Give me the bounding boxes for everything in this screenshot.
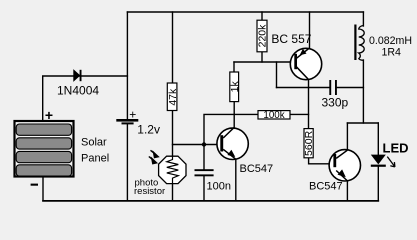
- svg-text:BC547: BC547: [240, 163, 274, 175]
- wire 100k right lead: [290, 113, 309, 115]
- resistor 560R: [303, 129, 315, 158]
- wire inductor bottom lead: [362, 60, 364, 123]
- wire 100n capacitor bottom lead: [203, 176, 205, 200]
- wire 100n capacitor top lead: [203, 145, 205, 170]
- label solar panel minus: [31, 184, 38, 186]
- capacitor 100n: [195, 169, 214, 176]
- wire 220k bottom to Q2 base rail: [261, 52, 263, 62]
- wire Q2 collector down to 560R: [308, 80, 310, 129]
- capacitor 330p: [329, 80, 337, 95]
- resistor 100k: [258, 110, 290, 121]
- wire 47k top: [172, 12, 174, 83]
- wire 330p left lead: [277, 87, 330, 89]
- diode D1 1N4004: [74, 70, 82, 81]
- wire photoresistor bottom: [172, 183, 174, 201]
- battery B1 1.2v: [116, 119, 138, 124]
- svg-text:1.2v: 1.2v: [137, 122, 160, 136]
- LED D2: [371, 155, 395, 167]
- wire left rail lower (battery to bottom rail): [126, 124, 128, 200]
- wire Q3 emitter to bottom rail: [346, 181, 348, 201]
- node junction dot at Q1 base: [202, 142, 206, 146]
- wire panel minus to bottom rail: [42, 178, 44, 201]
- wire 330p right lead: [337, 87, 364, 89]
- svg-text:330p: 330p: [322, 96, 349, 110]
- svg-text:BC 557: BC 557: [271, 32, 311, 46]
- wire Q2 base rail: [234, 61, 294, 63]
- wire 1k bottom to Q1 collector: [233, 102, 235, 127]
- solar panel: [15, 121, 74, 177]
- wire output node rail: [347, 122, 378, 124]
- inductor L1 0.082mH 1R4: [354, 25, 364, 61]
- photoresistor light arrows: [149, 150, 159, 163]
- transistor Q3 BC547: [329, 150, 360, 181]
- wire 100k left lead down to Q1 base node: [204, 114, 258, 144]
- wire 560R bottom to Q3 base: [309, 158, 334, 164]
- wire Q1 base rail: [173, 144, 222, 146]
- transistor Q2 BC557: [290, 48, 321, 79]
- wire left rail upper (top rail to battery): [126, 12, 128, 119]
- wire Q3 collector: [346, 123, 348, 150]
- wire inductor top lead: [362, 12, 364, 26]
- wire 47k bottom to photoresistor: [172, 111, 174, 157]
- wire bottom rail: [43, 200, 378, 202]
- wire Q1 emitter to bottom rail: [235, 159, 237, 201]
- wire LED anode lead: [377, 123, 379, 155]
- resistor 1k: [229, 72, 241, 102]
- wire 220k top: [261, 12, 263, 20]
- svg-text:Solar: Solar: [81, 137, 107, 149]
- svg-text:BC547: BC547: [309, 181, 343, 193]
- svg-text:+: +: [45, 107, 53, 123]
- svg-text:47k: 47k: [167, 88, 179, 106]
- wire Q2 emitter to top rail: [309, 12, 311, 48]
- svg-text:560R: 560R: [303, 130, 315, 156]
- wire 1k top: [233, 62, 235, 72]
- resistor 47k: [167, 83, 179, 111]
- wire diode branch (panel + to left rail): [43, 76, 128, 120]
- svg-text:resistor: resistor: [134, 186, 165, 197]
- svg-text:1k: 1k: [229, 81, 241, 93]
- wire feedback branch from Q2 base rail down: [276, 62, 278, 88]
- wire LED cathode lead: [377, 167, 379, 201]
- svg-text:100n: 100n: [207, 180, 231, 192]
- wire top rail: [127, 11, 363, 13]
- svg-text:1R4: 1R4: [382, 47, 402, 59]
- svg-text:LED: LED: [383, 141, 409, 156]
- resistor 220k: [257, 20, 269, 52]
- svg-text:1N4004: 1N4004: [57, 83, 99, 97]
- svg-text:+: +: [129, 108, 136, 122]
- svg-text:100k: 100k: [263, 110, 284, 121]
- svg-text:Panel: Panel: [81, 153, 109, 165]
- photoresistor LDR: [159, 156, 186, 183]
- svg-text:0.082mH: 0.082mH: [369, 35, 412, 47]
- svg-text:220k: 220k: [257, 24, 269, 48]
- transistor Q1 BC547: [217, 127, 248, 159]
